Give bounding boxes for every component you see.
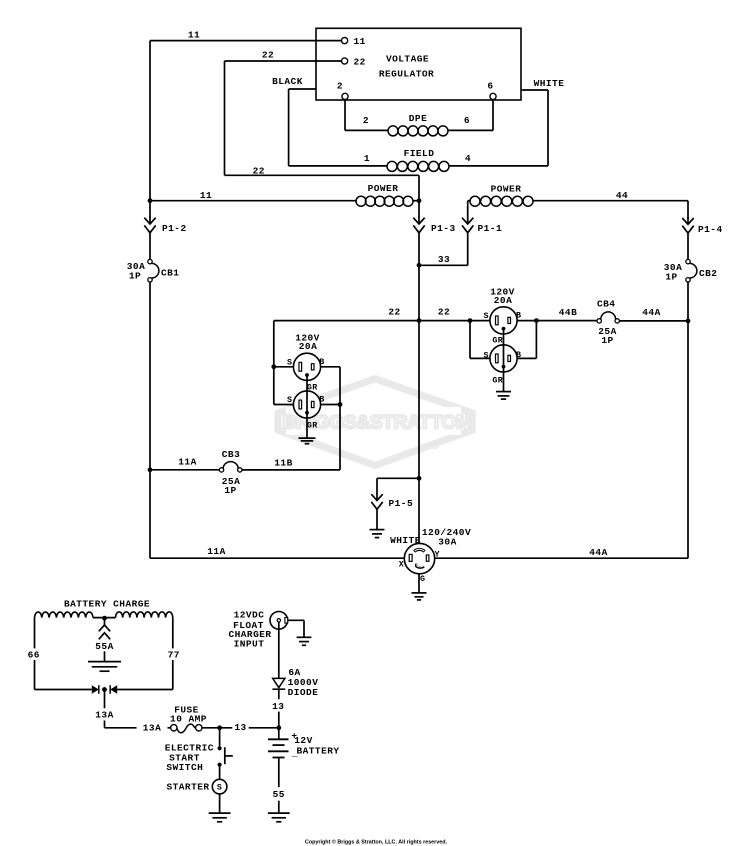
svg-text:44: 44 [616,190,628,201]
svg-text:11B: 11B [274,458,292,469]
svg-text:2: 2 [337,80,343,91]
svg-text:1P: 1P [601,335,613,346]
svg-text:2: 2 [363,115,369,126]
svg-text:13A: 13A [143,723,161,734]
svg-text:P1-5: P1-5 [389,498,414,509]
svg-text:S: S [287,357,292,367]
svg-text:B: B [516,350,521,360]
svg-text:WHITE: WHITE [390,535,421,546]
svg-text:1P: 1P [224,485,236,496]
svg-text:GR: GR [307,383,318,393]
svg-text:VOLTAGE: VOLTAGE [386,53,429,64]
svg-text:BATTERY CHARGE: BATTERY CHARGE [64,599,150,610]
svg-text:4: 4 [465,153,471,164]
svg-text:11: 11 [354,36,366,47]
svg-text:P1-3: P1-3 [431,223,456,234]
svg-text:GR: GR [307,420,318,430]
svg-text:Y: Y [435,549,441,559]
svg-text:44A: 44A [642,307,660,318]
svg-text:11: 11 [200,190,212,201]
svg-text:1P: 1P [129,271,141,282]
svg-text:22: 22 [388,307,400,318]
svg-text:SWITCH: SWITCH [166,762,203,773]
svg-text:B: B [319,395,324,405]
svg-text:P1-4: P1-4 [698,224,723,235]
svg-text:13A: 13A [95,710,113,721]
svg-text:POWER: POWER [491,184,522,195]
svg-text:BATTERY: BATTERY [296,745,339,756]
svg-text:GR: GR [492,376,503,386]
svg-text:P1-2: P1-2 [162,223,187,234]
svg-text:GR: GR [492,336,503,346]
svg-text:WHITE: WHITE [534,78,565,89]
svg-text:6: 6 [487,80,493,91]
svg-text:22: 22 [253,166,265,177]
svg-text:44B: 44B [559,307,577,318]
svg-text:13: 13 [272,701,284,712]
svg-text:S: S [287,395,292,405]
svg-text:66: 66 [28,649,40,660]
svg-text:Copyright © Briggs & Stratton,: Copyright © Briggs & Stratton, LLC. All … [305,838,448,845]
svg-text:6: 6 [464,115,470,126]
svg-text:55: 55 [273,789,285,800]
svg-text:REGULATOR: REGULATOR [379,68,434,79]
svg-text:STARTER: STARTER [166,782,209,793]
svg-text:S: S [484,351,489,361]
svg-text:DPE: DPE [409,113,427,124]
svg-text:10 AMP: 10 AMP [170,713,207,724]
svg-text:20A: 20A [494,295,512,306]
svg-text:FIELD: FIELD [404,148,435,159]
svg-text:G: G [420,574,425,584]
svg-text:CB2: CB2 [699,268,717,279]
svg-text:33: 33 [438,254,450,265]
svg-text:CB1: CB1 [161,268,179,279]
svg-text:44A: 44A [589,547,607,558]
svg-text:POWER: POWER [368,183,399,194]
svg-text:11A: 11A [178,457,196,468]
svg-text:B: B [516,311,521,321]
svg-text:1P: 1P [665,272,677,283]
svg-text:BLACK: BLACK [272,76,303,87]
svg-text:22: 22 [262,50,274,61]
svg-text:22: 22 [354,56,366,67]
svg-text:11: 11 [188,30,200,41]
svg-text:INPUT: INPUT [234,639,265,650]
svg-text:CB4: CB4 [597,299,615,310]
svg-text:55A: 55A [95,641,113,652]
svg-text:20A: 20A [299,341,317,352]
svg-text:DIODE: DIODE [288,687,319,698]
svg-text:X: X [399,559,405,569]
svg-text:22: 22 [438,307,450,318]
svg-text:11A: 11A [207,546,225,557]
svg-text:P1-1: P1-1 [478,223,503,234]
svg-text:1: 1 [364,153,370,164]
svg-text:77: 77 [168,649,180,660]
svg-text:S: S [217,784,222,793]
svg-text:B: B [319,357,324,367]
svg-text:13: 13 [234,722,246,733]
svg-text:30A: 30A [438,537,456,548]
svg-text:R: R [433,443,437,449]
svg-text:CB3: CB3 [222,449,240,460]
svg-text:S: S [484,311,489,321]
